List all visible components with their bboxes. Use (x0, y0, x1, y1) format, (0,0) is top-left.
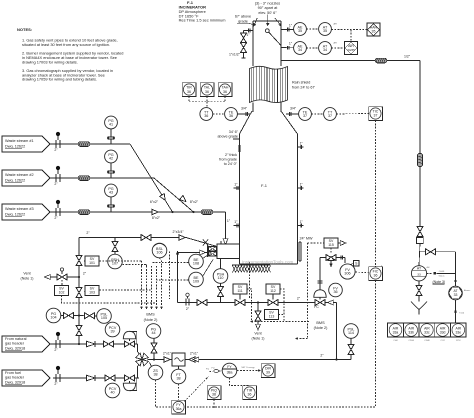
svg-text:3/4": 3/4" (290, 107, 297, 111)
svg-text:105: 105 (101, 316, 107, 320)
burner coupling / mixer (207, 245, 217, 258)
waste stream #3 source flag (2, 204, 50, 220)
svg-text:C2H6: C2H6 (409, 340, 415, 342)
svg-text:above grade: above grade (217, 135, 238, 139)
svg-text:2"x3/4": 2"x3/4" (172, 230, 184, 234)
rain shield (250, 63, 316, 106)
pressure gauge PG 44 (146, 324, 161, 361)
pressure gauge PG 41 (105, 116, 118, 144)
svg-text:1/2": 1/2" (404, 54, 411, 58)
burner gas control line (178, 296, 337, 302)
ZS38 signal to FY36a (156, 380, 172, 407)
svg-text:36: 36 (248, 392, 252, 396)
svg-text:42: 42 (109, 157, 113, 161)
waste #1 flame arrestor (78, 142, 90, 147)
analyzer tap AE 35 line (281, 24, 294, 32)
svg-text:2"x1": 2"x1" (190, 351, 199, 355)
svg-text:34: 34 (323, 48, 327, 52)
waste stream #1 source flag (2, 136, 50, 152)
svg-text:39: 39 (110, 330, 114, 334)
reducer 1x2 downstream (189, 351, 199, 362)
fuel gas source flag (2, 370, 50, 386)
pressure switch low PSL 114 (337, 324, 359, 360)
svg-text:40: 40 (110, 391, 114, 395)
svg-text:34: 34 (298, 48, 302, 52)
svg-text:3/4": 3/4" (241, 107, 248, 111)
waste #1 diagonal to header, reducer 6x2 (130, 144, 174, 213)
svg-text:Rain shield: Rain shield (292, 81, 310, 85)
inline sample filter (418, 154, 423, 227)
svg-text:33e: 33e (455, 331, 461, 335)
svg-text:C3H8: C3H8 (424, 340, 430, 342)
svg-text:35: 35 (298, 29, 302, 33)
svg-text:41: 41 (109, 123, 113, 127)
svg-text:36a: 36a (176, 407, 182, 411)
incinerator stack F-1 upper column (253, 21, 281, 66)
svg-text:F-1: F-1 (261, 183, 268, 188)
svg-text:115: 115 (328, 243, 334, 247)
manway 24in MW (299, 237, 313, 261)
waste #2 ball valve 2in (54, 166, 62, 186)
waste #3 flame arrestor (78, 210, 90, 215)
pressure switch high PSH 107 (108, 238, 123, 269)
svg-text:108: 108 (193, 262, 199, 266)
natural gas ball valve (54, 332, 62, 352)
signal lines from TIR TAL TAH to TT 36 (189, 96, 225, 107)
pressure switch low PSL 105 (79, 309, 111, 324)
svg-text:Dwg. 12622: Dwg. 12622 (5, 212, 25, 216)
svg-text:Dwg. 32918: Dwg. 32918 (5, 346, 25, 350)
fuel gas check valve (87, 375, 96, 381)
svg-text:Dwg. 12622: Dwg. 12622 (5, 144, 25, 148)
svg-text:101: 101 (89, 261, 95, 265)
svg-text:Trend: Trend (459, 313, 464, 315)
svg-text:38a: 38a (227, 371, 233, 375)
pressure gauge PG 42 (105, 150, 118, 178)
stack top nozzle leader arrows (253, 15, 281, 27)
svg-text:Vent: Vent (23, 271, 30, 275)
BMS signal bundle (left) (62, 258, 189, 322)
vent valve with SV 102 (55, 268, 69, 296)
svg-text:BTU: BTU (456, 340, 461, 342)
svg-text:111: 111 (237, 289, 242, 293)
svg-text:(Note 1): (Note 1) (21, 277, 34, 281)
svg-text:109: 109 (193, 280, 199, 284)
shared display AT 33 computer function (449, 286, 471, 300)
svg-text:FQ: FQ (206, 368, 209, 370)
line from FV36 down to meter run (335, 303, 337, 361)
tower body (240, 134, 298, 264)
svg-text:104: 104 (50, 316, 56, 320)
svg-text:38: 38 (212, 392, 216, 396)
2in burner gas line (79, 231, 186, 237)
temperature controller TIC 37 (336, 107, 383, 121)
svg-text:36: 36 (204, 114, 208, 118)
analyzer bypass branch with valve (420, 249, 456, 286)
waste header drop into burner (223, 212, 231, 245)
svg-text:106: 106 (156, 251, 162, 255)
svg-text:103: 103 (89, 290, 95, 294)
svg-text:38: 38 (176, 377, 180, 381)
svg-text:InstrumentationTools.com: InstrumentationTools.com (242, 260, 294, 265)
svg-text:Waste stream #2: Waste stream #2 (5, 173, 34, 177)
AT33 signal to shared display (427, 271, 457, 282)
svg-text:2" thick: 2" thick (225, 153, 237, 157)
position switch ZS 38 (148, 363, 163, 380)
flame scanner BE 108 (189, 254, 211, 269)
svg-text:Alarms: Alarms (464, 289, 470, 292)
waste stream #2 pipe (50, 177, 154, 179)
svg-text:gas header: gas header (5, 376, 25, 380)
waste stream #2 source flag (2, 170, 50, 186)
inline regulator with gauge (186, 293, 190, 311)
svg-text:43: 43 (109, 191, 113, 195)
svg-text:From natural: From natural (5, 337, 27, 341)
analyzer sample line from stack 1/2in (281, 54, 420, 153)
svg-text:CH4S: CH4S (439, 271, 445, 273)
svg-text:113: 113 (269, 314, 275, 318)
svg-text:AH: AH (334, 23, 337, 26)
svg-text:90° apart at: 90° apart at (258, 6, 279, 10)
flow controller FIC 36 (355, 266, 383, 281)
svg-text:107: 107 (112, 262, 118, 266)
svg-text:(Note 2): (Note 2) (314, 326, 328, 330)
pressure control valve PCV 39 (105, 322, 137, 347)
svg-text:From fuel: From fuel (5, 371, 21, 375)
volume booster FV 306 (340, 261, 359, 280)
svg-text:36: 36 (205, 90, 209, 94)
svg-text:67' above: 67' above (235, 15, 251, 19)
riser block valve (76, 326, 82, 346)
waste header flame arrestor (201, 210, 213, 215)
safety shutoff valve SV 101 (76, 256, 99, 267)
natural gas source flag (2, 336, 50, 352)
svg-text:1"x1/2": 1"x1/2" (229, 53, 241, 57)
waste stream #1 pipe (50, 143, 130, 145)
svg-text:BMS: BMS (146, 313, 155, 317)
burner switch low BSL 106 (152, 243, 167, 258)
fuel gas ball valve (54, 366, 62, 386)
svg-text:33: 33 (417, 273, 421, 277)
analyzer recorders AIR 33a-33e (388, 323, 467, 342)
totalizer PIQ 38 (207, 386, 221, 408)
natural gas pipe 2in (50, 343, 138, 345)
svg-text:from 24' to 67': from 24' to 67' (292, 85, 315, 89)
metered fuel line (148, 353, 337, 359)
BMS signal bundle (right) (247, 243, 328, 340)
svg-text:112: 112 (270, 289, 276, 293)
natural gas block valve (104, 341, 114, 347)
svg-text:Waste stream #3: Waste stream #3 (5, 207, 34, 211)
svg-text:FY: FY (227, 365, 232, 369)
svg-text:grade: grade (238, 19, 248, 23)
natural gas check valve (87, 341, 96, 347)
flame scanner BE 109 (189, 260, 213, 287)
waste #2 flame arrestor (78, 176, 90, 181)
energy recorder DIR 39 (237, 364, 275, 378)
svg-text:37: 37 (374, 113, 378, 117)
nozzle note (255, 1, 281, 15)
svg-text:AH: AH (334, 42, 337, 45)
svg-text:36: 36 (333, 290, 337, 294)
sample probe in stack (265, 29, 281, 46)
sample conditioning box (417, 238, 424, 244)
three-way solenoid vent valve (326, 255, 345, 268)
notes block (17, 27, 123, 82)
analyzer element AE 35 (294, 23, 307, 36)
temperature element TE 37 (286, 107, 311, 121)
recorder AIR 34/35 (331, 30, 357, 55)
TIC37 to FIC36 cascade signal (375, 121, 377, 267)
fuel gas block valve (105, 375, 115, 381)
svg-text:24" MW: 24" MW (300, 237, 314, 241)
svg-text:from grade: from grade (219, 157, 237, 161)
reducer 2x1 upstream (163, 351, 172, 362)
solenoid SV 115 (308, 238, 347, 253)
title block F-1 INCINERATOR (179, 0, 226, 22)
control signal loop bottom dashed run (185, 281, 375, 408)
burner body (217, 241, 240, 259)
svg-text:drawing 17059 for wiring and t: drawing 17059 for wiring and tubing deta… (22, 77, 97, 82)
svg-text:36: 36 (187, 90, 191, 94)
svg-text:33b: 33b (408, 331, 414, 335)
flow computer FY 38a (212, 363, 237, 378)
svg-text:39: 39 (266, 370, 270, 374)
svg-text:Status: Status (439, 275, 445, 278)
waste stream #3 pipe (50, 211, 226, 213)
svg-text:FC: FC (314, 305, 319, 309)
waste #3 ball valve 2in (54, 200, 62, 220)
line from shared display to recorders (454, 300, 464, 323)
svg-text:37: 37 (303, 114, 307, 118)
svg-text:Dwg. 32918: Dwg. 32918 (5, 380, 25, 384)
svg-text:BMS: BMS (316, 321, 325, 325)
svg-text:situated at least 30 feet from: situated at least 30 feet from any sourc… (22, 42, 110, 47)
temperature transmitter TT 37 (311, 108, 336, 121)
svg-text:102: 102 (59, 290, 65, 294)
svg-text:drawing 17003 for wiring detai: drawing 17003 for wiring details. (22, 59, 78, 64)
svg-text:306: 306 (344, 272, 350, 276)
FY36a to FY38a diagonal signal (185, 368, 223, 401)
svg-text:44: 44 (151, 331, 155, 335)
sample block valve (417, 227, 423, 266)
alarm AAH 35 (331, 23, 380, 36)
svg-text:NOTES:: NOTES: (17, 27, 32, 32)
svg-text:Dwg. 12622: Dwg. 12622 (5, 178, 25, 182)
analyzer tap AE 34 line (281, 42, 294, 50)
svg-text:37: 37 (328, 114, 332, 118)
svg-text:Vent: Vent (254, 331, 261, 335)
svg-text:33c: 33c (424, 331, 430, 335)
actuator air line to three-way solenoid (318, 258, 326, 290)
svg-text:33a: 33a (393, 331, 399, 335)
svg-text:elev. 50' 6": elev. 50' 6" (258, 11, 277, 15)
tower transition cone (240, 111, 298, 134)
analyzer transmitter AT 35 (306, 23, 337, 36)
svg-text:6"x2": 6"x2" (150, 200, 159, 204)
svg-text:8"x2": 8"x2" (190, 200, 199, 204)
stack lower column (253, 103, 281, 113)
svg-text:114: 114 (348, 331, 354, 335)
waste #1 ball valve 2in (54, 132, 62, 152)
svg-text:110: 110 (218, 276, 224, 280)
tower side nozzles 1in (233, 141, 303, 227)
svg-text:(Note 3): (Note 3) (433, 280, 446, 284)
stack vent valves top left, 1in x 1/2in (229, 29, 253, 58)
refractory note 2in thick (219, 145, 239, 166)
pressure gauge PG 43 (105, 184, 118, 212)
safety shutoff valve SV 111 (233, 284, 247, 306)
temperature recorder TIR 36 (182, 83, 196, 97)
svg-text:35: 35 (372, 29, 376, 33)
svg-text:34' 6": 34' 6" (229, 130, 239, 134)
svg-text:33d: 33d (440, 331, 446, 335)
svg-text:36: 36 (229, 114, 233, 118)
svg-text:to 24' 0": to 24' 0" (224, 162, 238, 166)
svg-text:34/35: 34/35 (347, 48, 355, 52)
vendor package dashed boundary (170, 252, 250, 300)
svg-text:36: 36 (374, 273, 378, 277)
safety shutoff valve SV 112 (266, 284, 280, 306)
svg-text:35: 35 (323, 29, 327, 33)
svg-text:(3) - 3" nozzles: (3) - 3" nozzles (255, 1, 281, 5)
reducer 2x3/4 (172, 230, 185, 240)
analyzer transmitter AT 34 (306, 42, 337, 55)
waste #3 reducer 8x2 (152, 209, 161, 220)
svg-text:33: 33 (454, 293, 458, 297)
block valve on 2in line (141, 235, 151, 241)
flow control valve FV 36 (314, 283, 343, 309)
svg-text:FQ: FQ (212, 368, 215, 370)
flow element FE vortex meter (172, 353, 185, 366)
block valve (197, 300, 207, 306)
svg-text:36: 36 (223, 90, 227, 94)
svg-text:8"x2": 8"x2" (152, 216, 161, 220)
pressure control valve PCV 40 (105, 375, 137, 398)
temperature transmitter TT 36 (200, 108, 213, 121)
gas chromatograph AT 33 (411, 266, 445, 285)
analyzer vent needle valve (416, 281, 422, 302)
elevation marker 34ft 6in (217, 130, 239, 139)
svg-text:38: 38 (153, 373, 157, 377)
waste #2 diagonal to header, reducer 8x2 (154, 178, 199, 213)
svg-text:NET % energy: NET % energy (242, 367, 255, 369)
fuel gas pipe 2in (53, 377, 139, 379)
pressure switch high PSH 110 (213, 259, 228, 303)
analyzer element AE 34 (294, 42, 307, 55)
safety shutoff valve SV 103 (76, 286, 99, 298)
svg-text:Res Time 1.5 sec minimum: Res Time 1.5 sec minimum (179, 18, 226, 23)
ground hatch at tower base (232, 265, 271, 273)
svg-text:Waste stream #1: Waste stream #1 (5, 139, 34, 143)
temperature recorder TIR 36b (230, 378, 257, 400)
gas selector crossover valve (136, 344, 149, 378)
main gas line diagonal into burner with breakaway X (186, 238, 217, 247)
gas riser (78, 238, 80, 345)
svg-text:2"x1": 2"x1" (163, 351, 172, 355)
label 67ft above grade (235, 15, 253, 25)
vent line to safe location (21, 271, 87, 280)
temperature alarm low TAL 36 (200, 83, 214, 97)
temperature alarm high TAH 36 (218, 83, 232, 97)
atmospheric vent flare tip (411, 302, 427, 315)
pilot gas line into burner (176, 250, 208, 302)
svg-text:(Note 1): (Note 1) (252, 337, 265, 341)
svg-text:(Note 2): (Note 2) (144, 318, 158, 322)
pressure gauge PG 104 (46, 308, 80, 323)
temperature element TE 36 (213, 107, 251, 121)
svg-text:gas header: gas header (5, 342, 25, 346)
bleed vent between block valves SV 113 (252, 301, 279, 340)
flow computer FY 36a (172, 384, 186, 414)
flow transmitter FT 38 (171, 366, 186, 384)
